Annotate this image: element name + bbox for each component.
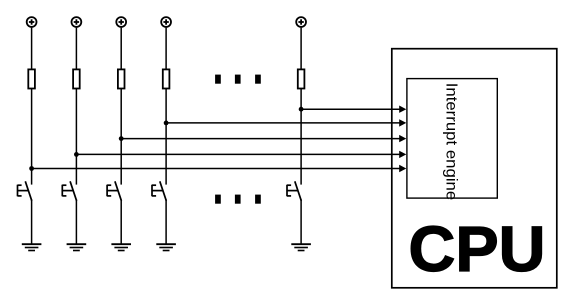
node N4 junction dot: [164, 121, 169, 126]
supply symbol P2 (circled plus, column 2): [72, 17, 82, 27]
wire: switch S3 to ground: [120, 200, 122, 245]
svg-text:Interrupt engine: Interrupt engine: [443, 83, 460, 201]
switch S5 (push-button): [287, 181, 301, 201]
wire: supply P3 to resistor R3: [120, 28, 122, 70]
switch S3 (push-button): [107, 181, 121, 201]
node N1 junction dot: [29, 166, 34, 171]
wire: resistor R4 to switch S4 (through node N4): [165, 89, 167, 185]
arrowhead into interrupt engine (input 5): [399, 165, 406, 172]
ground symbol (column 4): [156, 244, 176, 250]
wire: supply P5 to resistor R5: [300, 28, 302, 70]
resistor R3: [118, 69, 125, 88]
ground symbol (column 1): [22, 244, 42, 250]
resistor R5: [298, 69, 305, 88]
switch S2 (push-button): [62, 181, 76, 201]
switch S4 (push-button): [152, 181, 166, 201]
ground symbol (column 2): [67, 244, 87, 250]
wire: node N2 to CPU interrupt input 4: [76, 153, 399, 155]
interrupt engine block (inside CPU): [407, 79, 497, 201]
wire: node N1 to CPU interrupt input 5: [32, 168, 400, 170]
wire: node N4 to CPU interrupt input 2: [166, 122, 399, 124]
node N3 junction dot: [119, 136, 124, 141]
ellipsis dots (upper row, elided columns): [215, 75, 261, 84]
wire: node N5 to CPU interrupt input 1: [301, 108, 399, 110]
switch S1 (push-button): [18, 181, 32, 201]
arrowhead into interrupt engine (input 3): [399, 135, 406, 142]
supply symbol P3 (circled plus, column 3): [116, 17, 126, 27]
node N5 junction dot: [299, 107, 304, 112]
wire: resistor R5 to switch S5 (through node N5): [300, 89, 302, 185]
interrupt engine box outline: [407, 79, 497, 199]
resistor R4: [163, 69, 170, 88]
ellipsis dots (lower row, elided columns): [215, 195, 261, 204]
wire: supply P4 to resistor R4: [165, 28, 167, 70]
wire: resistor R1 to switch S1 (through node N1): [31, 89, 33, 185]
resistor R2: [73, 69, 80, 88]
CPU box outline: [392, 49, 557, 288]
wire: node N3 to CPU interrupt input 3: [121, 138, 399, 140]
supply symbol P1 (circled plus, column 1): [27, 17, 37, 27]
wire: switch S4 to ground: [165, 200, 167, 245]
wire: switch S5 to ground: [300, 200, 302, 245]
CPU box U1: [392, 49, 557, 288]
resistor R1: [28, 69, 35, 88]
ground symbol (column 3): [111, 244, 131, 250]
ground symbol (column 5): [291, 244, 311, 250]
wire: supply P1 to resistor R1: [31, 28, 33, 70]
supply symbol P5 (circled plus, column 5): [296, 17, 306, 27]
arrowhead into interrupt engine (input 2): [399, 119, 406, 126]
wire: switch S2 to ground: [75, 200, 77, 245]
wire: resistor R2 to switch S2 (through node N2): [75, 89, 77, 185]
arrowhead into interrupt engine (input 4): [399, 151, 406, 158]
supply symbol P4 (circled plus, column 4): [161, 17, 171, 27]
node N2 junction dot: [74, 152, 79, 157]
svg-text:CPU: CPU: [409, 213, 546, 285]
wire: resistor R3 to switch S3 (through node N3): [120, 89, 122, 185]
wire: supply P2 to resistor R2: [75, 28, 77, 70]
wire: switch S1 to ground: [31, 200, 33, 245]
arrowhead into interrupt engine (input 1): [399, 106, 406, 113]
